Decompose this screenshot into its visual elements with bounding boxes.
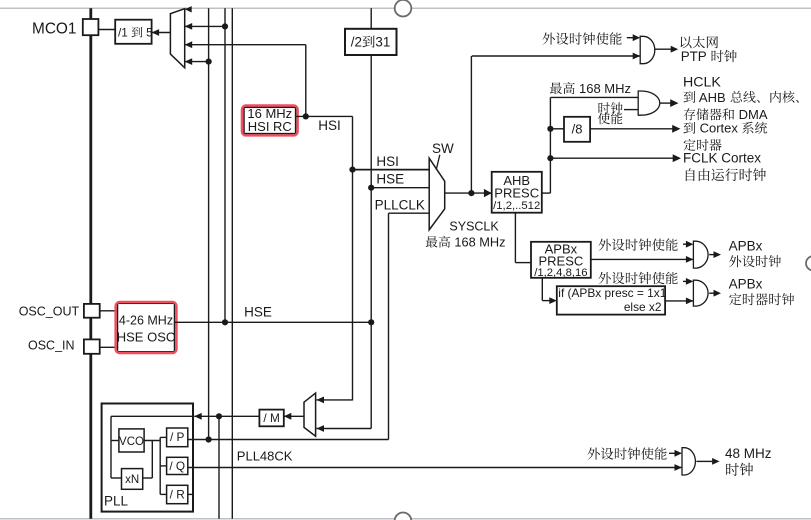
wire APBx timer output — [709, 290, 721, 297]
arrow MCO mux input LSE — [185, 6, 192, 12]
label to AHB bus — [684, 90, 799, 105]
wire PLLCLK vertical bus — [208, 8, 210, 439]
selection handle right — [806, 256, 811, 270]
svg-text:/1,2,4,8,16: /1,2,4,8,16 — [534, 267, 587, 279]
wire MCO mux input HSE — [185, 23, 225, 30]
wire enable arrow 48 — [669, 450, 682, 457]
condition box if APBx presc — [557, 286, 665, 314]
junction HSE main — [368, 319, 374, 325]
vco VCO box — [119, 429, 144, 452]
svg-text:PLLCLK: PLLCLK — [375, 198, 425, 213]
wire FCLK — [550, 154, 681, 162]
svg-text:HCLK: HCLK — [683, 74, 721, 90]
svg-text:xN: xN — [125, 474, 139, 486]
gate HCLK — [638, 91, 660, 115]
label max 168 MHz mid — [426, 235, 506, 250]
selection frame bottom line — [0, 518, 811, 520]
wire if box output — [665, 298, 693, 305]
svg-text:PLL: PLL — [104, 494, 129, 509]
junction div8 — [547, 126, 553, 132]
label OSC_OUT — [19, 305, 80, 319]
wire ethernet PTP vertical — [470, 56, 472, 193]
wire HCLK output — [660, 99, 679, 107]
svg-text:31: 31 — [375, 35, 390, 50]
label timer — [684, 139, 722, 151]
label /Q — [169, 459, 185, 473]
label FCLK Cortex — [683, 150, 761, 165]
label PRESC — [494, 185, 539, 200]
wire PLL input internal — [111, 416, 193, 478]
wire 48 MHz output — [696, 458, 719, 465]
wire APBx peripheral output — [709, 251, 721, 258]
multiplier xN box — [122, 469, 143, 490]
svg-text:/ P: / P — [170, 430, 185, 444]
prescaler AHB PRESC box — [492, 172, 542, 213]
gate APBx peripheral — [693, 241, 708, 268]
label HSI RC — [248, 119, 292, 134]
wire APBx out — [591, 256, 694, 263]
junction HSI SW — [349, 167, 355, 173]
svg-text:/1,2,..512: /1,2,..512 — [493, 200, 540, 212]
label to Cortex system — [684, 121, 768, 136]
mux SW — [429, 158, 445, 230]
svg-text:VCO: VCO — [119, 436, 144, 448]
label APBx 1 — [729, 239, 763, 254]
wire HSI from RC — [296, 115, 353, 117]
label /1,2,..512 — [493, 200, 540, 212]
wire PLL mux input HSE — [317, 425, 372, 432]
label peripheral clock — [729, 255, 781, 267]
pin OSC_OUT — [84, 304, 100, 318]
svg-text:/ R: / R — [170, 487, 185, 501]
label /2 to 31 — [351, 35, 391, 50]
junction PLLCLK to MCO — [206, 59, 212, 65]
wire vertical bus right of HSE — [231, 8, 233, 519]
svg-text:PRESC: PRESC — [494, 185, 539, 200]
label clock 48 — [726, 463, 753, 476]
wire MCO mux output — [152, 29, 171, 36]
label HSI at RC — [318, 118, 341, 133]
label HSI at SW — [376, 154, 399, 169]
wire HCLK top — [550, 96, 638, 98]
wire SYSCLK out of mux — [445, 189, 492, 197]
label clock enable apb1 — [599, 238, 678, 251]
label if condition — [558, 286, 666, 300]
svg-text:AHB: AHB — [696, 90, 729, 105]
label /1 to 5 — [118, 26, 153, 40]
svg-text:/2: /2 — [351, 35, 362, 50]
svg-text:HSE: HSE — [376, 172, 404, 187]
label clock enable ethernet — [543, 32, 622, 45]
gate 48 MHz — [682, 448, 695, 475]
label 48 MHz — [725, 446, 772, 461]
label PRESC apb — [539, 254, 584, 269]
label clock en line1 — [599, 102, 623, 114]
divider /Q box — [167, 457, 188, 474]
svg-text:FCLK Cortex: FCLK Cortex — [683, 150, 761, 165]
label OSC_IN — [28, 339, 75, 353]
highlight HSI RC red box — [242, 106, 298, 136]
svg-text:MCO1: MCO1 — [32, 20, 76, 37]
wire OSC_IN to HSE OSC — [100, 346, 118, 348]
wire MCO mux input HSI — [185, 41, 306, 48]
prescaler APBx PRESC box — [531, 242, 591, 278]
label /8 — [572, 122, 583, 137]
svg-text:SW: SW — [432, 141, 454, 156]
wire HSI vertical — [352, 116, 354, 400]
label clock enable apb2 — [599, 272, 678, 285]
wire PLLI2S vertical — [218, 416, 220, 519]
svg-text:4-26 MHz: 4-26 MHz — [119, 313, 173, 327]
selection handle top — [395, 0, 412, 17]
label max 168 MHz top — [550, 81, 631, 96]
svg-text:48 MHz: 48 MHz — [725, 446, 772, 461]
svg-text:HSI: HSI — [376, 154, 399, 169]
label /M — [263, 411, 279, 425]
label AHB — [503, 173, 530, 188]
junction HSE to MCO — [222, 23, 228, 29]
label /1,2,4,8,16 — [534, 267, 587, 279]
wire HSE main vertical — [370, 8, 372, 428]
svg-text:OSC_IN: OSC_IN — [28, 339, 75, 353]
label clock en line2 — [598, 112, 623, 124]
svg-text:APBx: APBx — [729, 239, 763, 254]
divider /8 box — [564, 117, 590, 142]
svg-text:168 MHz: 168 MHz — [575, 81, 631, 96]
label VCO — [119, 436, 144, 448]
wire enable arrow apb2 — [683, 278, 693, 285]
selection frame top line — [0, 7, 811, 9]
wire div8 input — [550, 128, 564, 130]
wire to Cortex timer — [591, 125, 681, 133]
wire HSI into SW mux — [353, 169, 430, 171]
svg-text:else x2: else x2 — [624, 300, 662, 314]
label else x2 — [624, 300, 662, 314]
svg-text:HSE: HSE — [244, 304, 272, 319]
wire /R stub — [188, 493, 193, 495]
wire HSI up segment — [305, 45, 307, 117]
wire PLL mux input HSI — [317, 397, 353, 404]
label timer clock — [729, 293, 794, 305]
label PLL — [104, 494, 129, 509]
svg-text:/ M: / M — [263, 411, 279, 425]
svg-text:OSC_OUT: OSC_OUT — [19, 305, 80, 319]
label PLLCLK — [375, 198, 425, 213]
label free running clock — [686, 168, 766, 181]
wire PLLCLK from /P — [188, 439, 389, 441]
wire HSE into SW mux — [371, 187, 429, 189]
highlight HSE OSC red box — [116, 302, 177, 353]
label MCO1 — [32, 20, 76, 37]
wire MCO mux input PLLCLK — [185, 58, 209, 65]
pin MCO1 — [83, 19, 99, 35]
svg-text:Cortex: Cortex — [696, 121, 742, 136]
pin OSC_IN — [84, 339, 100, 353]
label PLL48CK — [237, 449, 293, 464]
junction FCLK — [547, 155, 553, 161]
svg-text:HSE OSC: HSE OSC — [117, 330, 176, 345]
label xN — [125, 474, 139, 486]
wire enable arrow apb1 — [683, 241, 693, 248]
oscillator HSE OSC box — [118, 303, 175, 352]
gate ethernet PTP — [640, 36, 655, 63]
label HSE at SW — [376, 172, 404, 187]
junction PLLI2S branch — [216, 413, 222, 419]
gate APBx timer — [693, 280, 708, 306]
wire SYSCLK down to APBx — [515, 213, 531, 263]
wire enable arrow ethernet — [627, 34, 640, 41]
label APBx 2 — [729, 277, 763, 292]
wire HSE — [175, 321, 372, 323]
svg-text:/8: /8 — [572, 122, 583, 137]
label ethernet — [681, 36, 719, 48]
svg-text:if (APBx presc = 1x1: if (APBx presc = 1x1 — [558, 286, 666, 300]
svg-text:HSI RC: HSI RC — [248, 119, 292, 134]
label clock enable 48 — [588, 447, 667, 460]
junction /P to MCO line — [206, 436, 212, 442]
divider /1 to 5 box — [115, 20, 151, 44]
wire PLL48CK — [188, 464, 682, 471]
oscillator HSI RC box — [244, 107, 296, 133]
divider /R box — [167, 485, 188, 503]
label PTP clock — [681, 49, 737, 64]
mux MCO1 select — [170, 9, 184, 68]
wire ethernet output — [655, 46, 678, 53]
wire AHB out to HCLK riser — [542, 97, 551, 193]
label SYSCLK — [449, 220, 499, 234]
svg-text:PTP: PTP — [681, 49, 711, 64]
divider /2 to 31 box — [345, 29, 397, 55]
svg-text:SYSCLK: SYSCLK — [449, 220, 499, 234]
wire SW select tick — [436, 155, 440, 170]
pll PLL box — [102, 404, 193, 512]
junction SYSCLK ethernet branch — [468, 190, 474, 196]
svg-text:/ Q: / Q — [169, 459, 185, 473]
label HCLK — [683, 74, 721, 90]
chip boundary line — [89, 8, 92, 519]
junction HSI MCO branch — [303, 113, 309, 119]
label SW — [432, 141, 454, 156]
label HSE OSC — [117, 330, 176, 345]
selection handle bottom — [395, 513, 412, 520]
svg-text:APBx: APBx — [729, 277, 763, 292]
wire OSC_OUT to HSE OSC — [100, 310, 118, 312]
divider /P box — [167, 428, 188, 447]
svg-text:PLL48CK: PLL48CK — [237, 449, 293, 464]
wire VCO to dividers — [160, 437, 166, 494]
wire VCO feedback — [143, 441, 161, 479]
label APBx presc — [545, 242, 578, 257]
svg-text:/1: /1 — [118, 26, 131, 40]
divider /M box — [259, 410, 283, 427]
label 16 MHz — [247, 106, 292, 121]
wire PLLCLK into SW mux — [389, 213, 430, 439]
label /P — [170, 430, 185, 444]
wire HSE-to-MCO vertical bus — [224, 8, 226, 322]
svg-text:168 MHz: 168 MHz — [451, 235, 506, 250]
svg-text:HSI: HSI — [318, 118, 341, 133]
label 4-26 MHz — [119, 313, 173, 327]
mux PLL source — [304, 393, 316, 436]
wire clock enable stub — [624, 109, 638, 111]
label /R — [170, 487, 185, 501]
wire ethernet lower input — [472, 53, 640, 60]
junction HSE MCO branch — [222, 319, 228, 325]
label HSE — [244, 304, 272, 319]
wire PLL mux to /M — [284, 413, 304, 420]
junction HSE SW — [368, 185, 374, 191]
wire APBx to if box — [542, 278, 557, 304]
wire /M to PLL — [194, 413, 259, 420]
wire MCO1 pin to divider — [98, 29, 115, 31]
label memory and DMA — [684, 107, 768, 122]
